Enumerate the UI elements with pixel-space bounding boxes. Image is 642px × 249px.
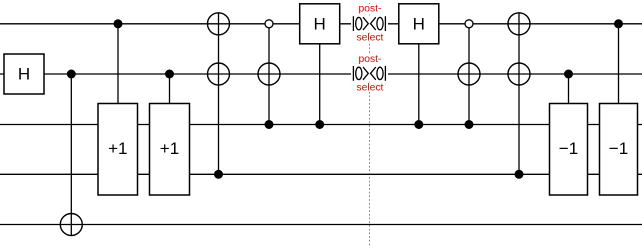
svg-text:+1: +1 <box>160 139 179 158</box>
svg-text:select: select <box>356 33 383 44</box>
svg-text:H: H <box>314 14 326 33</box>
svg-text:select: select <box>356 82 383 93</box>
svg-text:post-: post- <box>359 4 382 15</box>
svg-text:−1: −1 <box>609 139 628 158</box>
svg-text:+1: +1 <box>108 139 127 158</box>
svg-text:H: H <box>18 65 30 84</box>
svg-text:post-: post- <box>359 54 382 65</box>
svg-text:H: H <box>413 14 425 33</box>
svg-text:−1: −1 <box>559 139 578 158</box>
